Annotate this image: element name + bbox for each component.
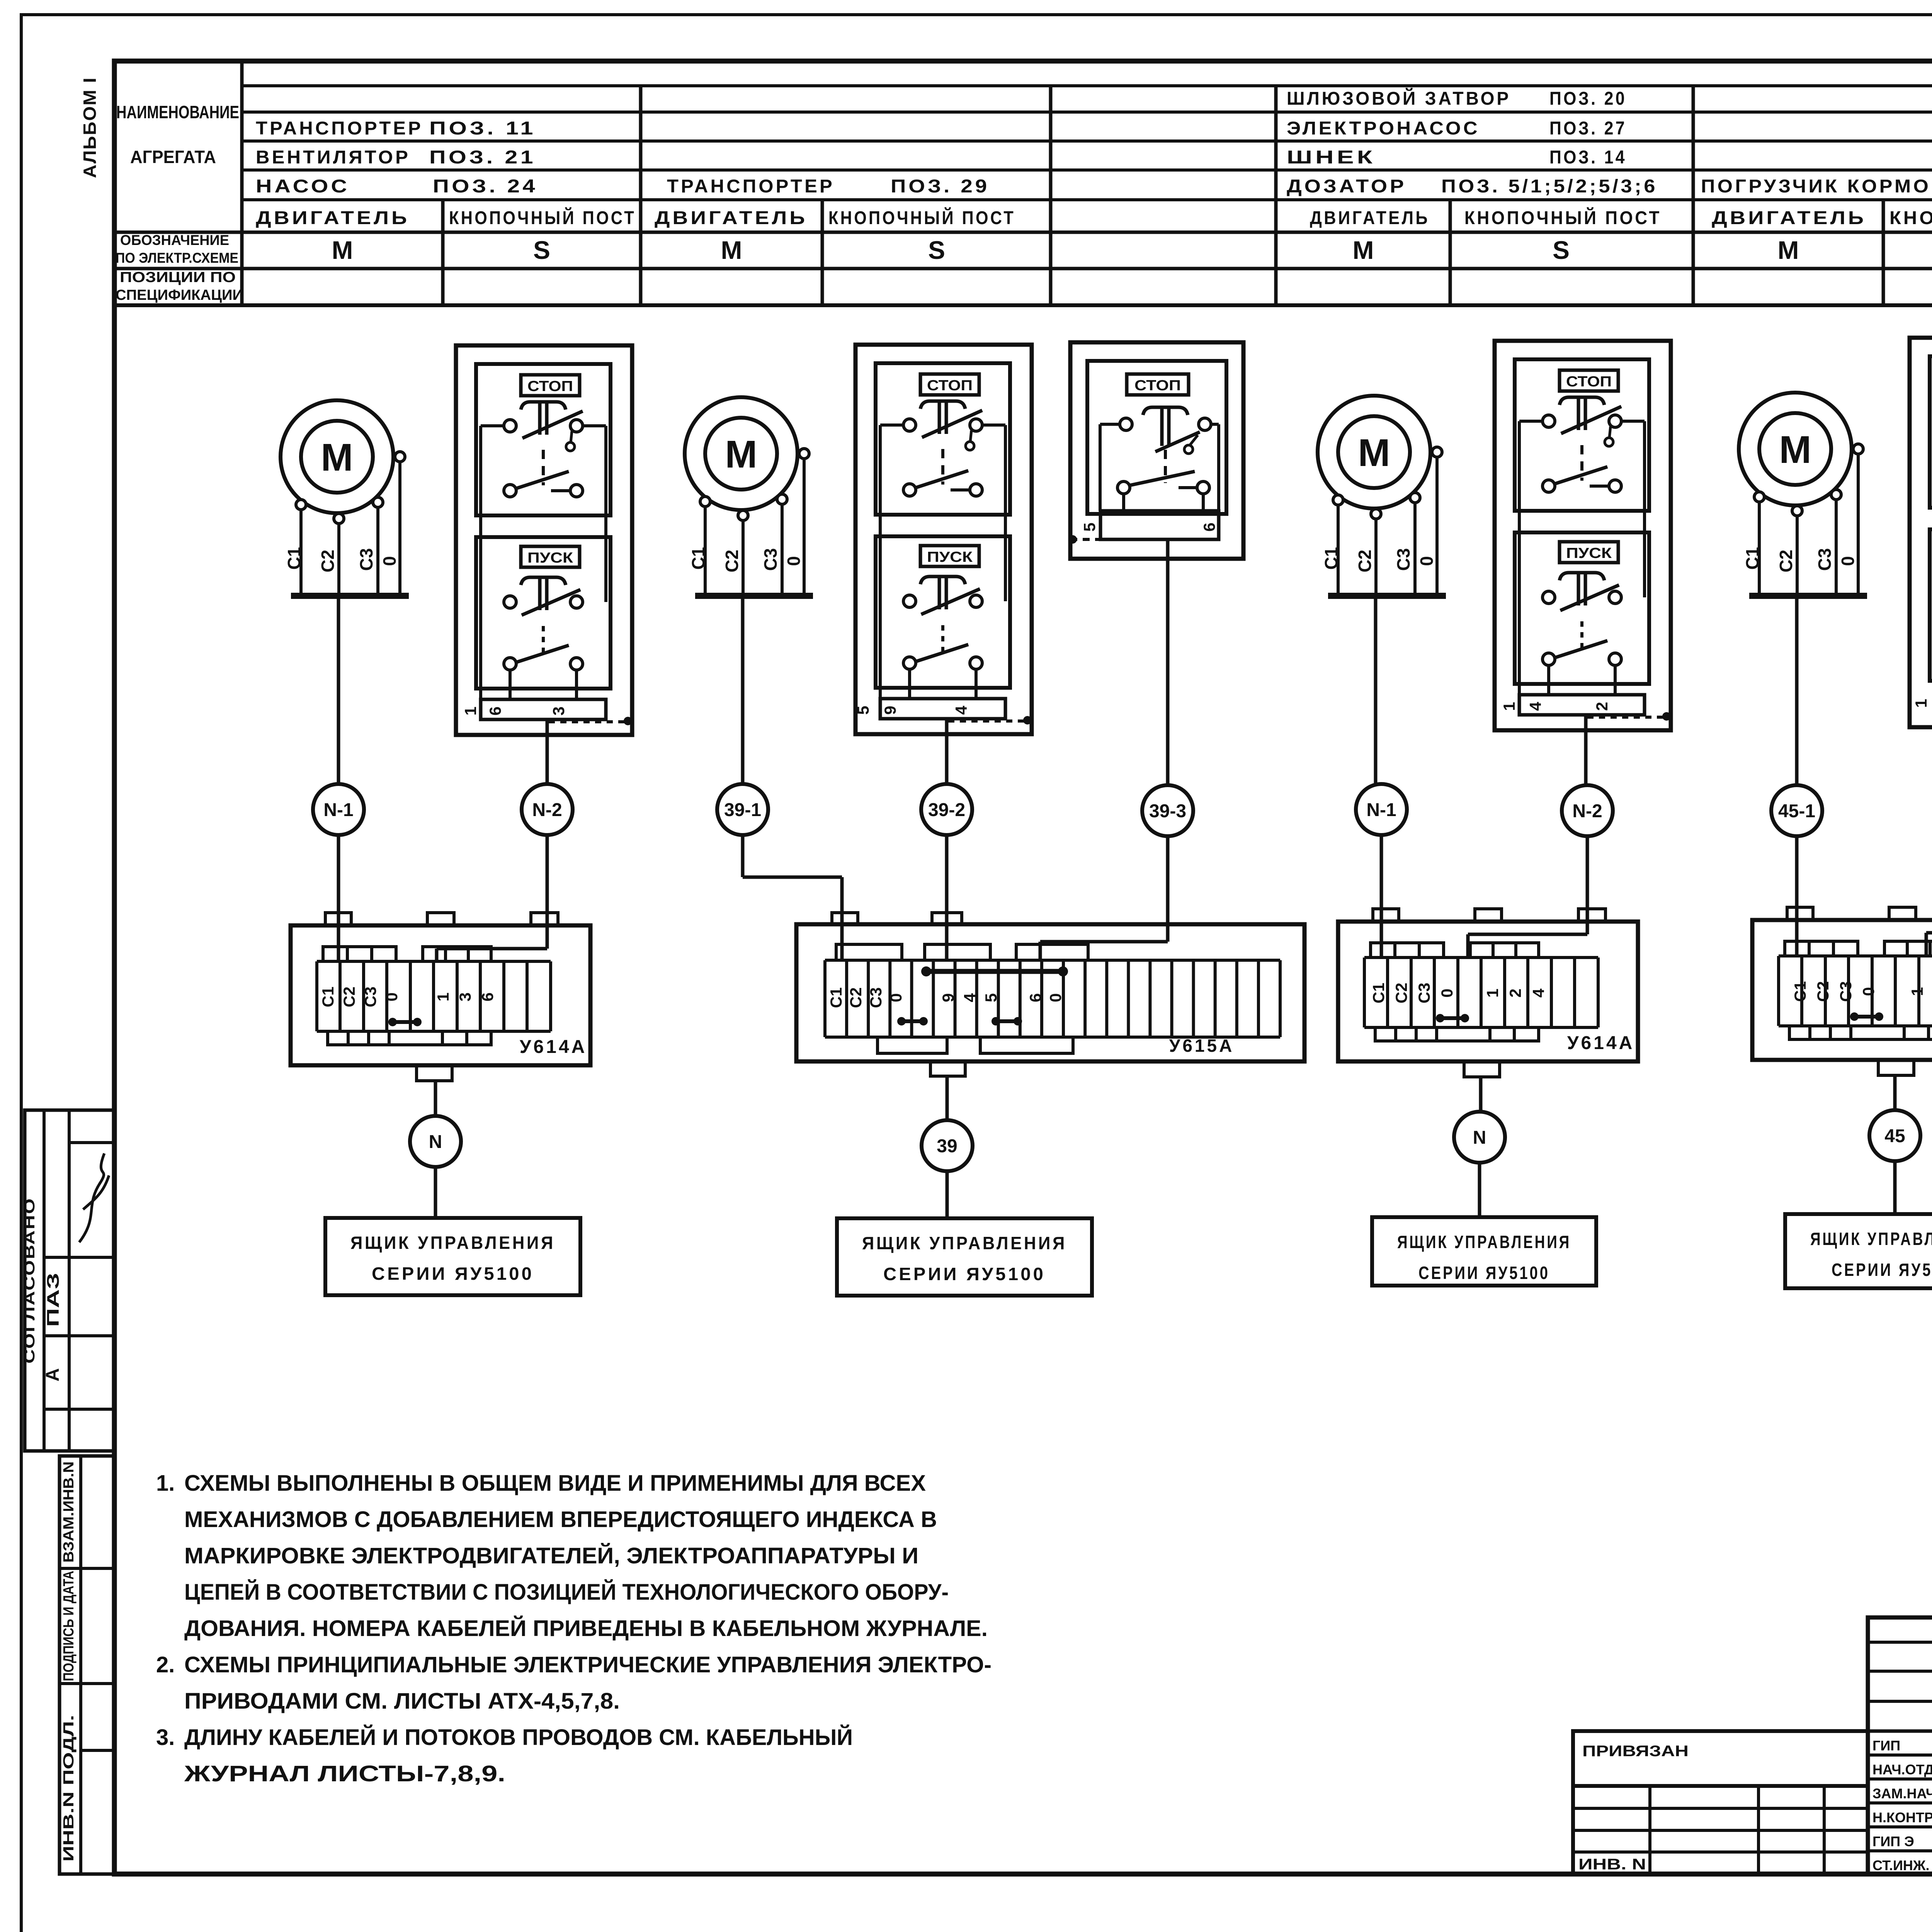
svg-text:1: 1 <box>434 992 452 1001</box>
svg-text:5: 5 <box>1080 522 1099 531</box>
svg-text:1: 1 <box>1908 987 1926 996</box>
svg-text:НАСОС: НАСОС <box>256 176 350 197</box>
svg-text:ДЛИНУ КАБЕЛЕЙ И ПОТОКОВ ПР: ДЛИНУ КАБЕЛЕЙ И ПОТОКОВ ПРОВОДОВ СМ. КАБ… <box>184 1725 853 1750</box>
svg-text:С1: С1 <box>1742 547 1762 570</box>
svg-text:АГРЕГАТА: АГРЕГАТА <box>130 147 216 167</box>
svg-text:0: 0 <box>379 556 400 566</box>
svg-text:N-1: N-1 <box>323 800 353 820</box>
svg-text:С1: С1 <box>319 986 337 1007</box>
svg-text:ЯЩИК УПРАВЛЕНИЯ: ЯЩИК УПРАВЛЕНИЯ <box>1810 1229 1932 1249</box>
svg-text:С2: С2 <box>318 550 338 573</box>
svg-text:СЕРИИ ЯУ5100: СЕРИИ ЯУ5100 <box>372 1264 534 1284</box>
svg-text:М: М <box>725 433 757 476</box>
svg-text:0: 0 <box>383 992 401 1001</box>
svg-text:С2: С2 <box>1355 550 1375 573</box>
svg-text:ДВИГАТЕЛЬ: ДВИГАТЕЛЬ <box>256 208 410 228</box>
svg-text:С3: С3 <box>1815 548 1835 571</box>
svg-text:СЕРИИ ЯУ5100: СЕРИИ ЯУ5100 <box>1832 1260 1932 1280</box>
svg-text:ПО ЭЛЕКТР.СХЕМЕ: ПО ЭЛЕКТР.СХЕМЕ <box>116 250 238 266</box>
svg-text:5: 5 <box>854 706 872 714</box>
svg-text:39: 39 <box>937 1136 957 1156</box>
svg-text:ПОЗ. 24: ПОЗ. 24 <box>433 176 538 197</box>
svg-text:С2: С2 <box>340 986 358 1007</box>
svg-text:АЛЬБОМ I: АЛЬБОМ I <box>80 77 100 178</box>
svg-text:ПРИВЯЗАН: ПРИВЯЗАН <box>1582 1743 1689 1760</box>
svg-text:ЦЕПЕЙ В СООТВЕТСТВИИ С ПОЗИЦ: ЦЕПЕЙ В СООТВЕТСТВИИ С ПОЗИЦИЕЙ ТЕХНОЛОГ… <box>184 1580 949 1605</box>
svg-text:6: 6 <box>486 706 504 715</box>
svg-text:С2: С2 <box>847 987 865 1008</box>
svg-text:М: М <box>321 436 353 479</box>
svg-text:2.: 2. <box>156 1652 175 1677</box>
svg-text:КНОПОЧНЫЙ ПОСТ: КНОПОЧНЫЙ ПОСТ <box>1464 207 1662 228</box>
svg-text:4: 4 <box>1526 702 1544 711</box>
svg-text:N-2: N-2 <box>1572 801 1602 821</box>
svg-text:СЕРИИ ЯУ5100: СЕРИИ ЯУ5100 <box>1418 1263 1550 1283</box>
svg-text:М: М <box>1353 236 1374 264</box>
svg-text:ПОЗ. 5/1;5/2;5/3;6: ПОЗ. 5/1;5/2;5/3;6 <box>1441 176 1658 197</box>
svg-text:2: 2 <box>1506 988 1524 997</box>
svg-text:39-1: 39-1 <box>724 800 761 820</box>
svg-text:ПУСК: ПУСК <box>1566 545 1612 561</box>
svg-text:ПОДПИСЬ И ДАТА: ПОДПИСЬ И ДАТА <box>61 1571 77 1681</box>
svg-text:С1: С1 <box>827 987 845 1008</box>
svg-text:СЕРИИ ЯУ5100: СЕРИИ ЯУ5100 <box>883 1264 1046 1284</box>
svg-text:С2: С2 <box>1392 983 1410 1003</box>
svg-text:ГИП: ГИП <box>1872 1738 1900 1753</box>
svg-text:ПОЗ. 20: ПОЗ. 20 <box>1549 88 1627 109</box>
svg-text:ЯЩИК УПРАВЛЕНИЯ: ЯЩИК УПРАВЛЕНИЯ <box>350 1233 555 1253</box>
svg-text:S: S <box>1553 236 1570 264</box>
svg-text:ОБОЗНАЧЕНИЕ: ОБОЗНАЧЕНИЕ <box>120 232 229 248</box>
svg-text:6: 6 <box>478 992 497 1001</box>
svg-text:ШЛЮЗОВОЙ ЗАТВОР: ШЛЮЗОВОЙ ЗАТВОР <box>1287 88 1511 109</box>
svg-text:С1: С1 <box>688 547 708 570</box>
svg-text:ШНЕК: ШНЕК <box>1287 147 1376 168</box>
svg-text:6: 6 <box>1200 522 1218 531</box>
svg-text:ПОЗ. 29: ПОЗ. 29 <box>891 176 990 197</box>
svg-text:СОГЛАСОВАНО: СОГЛАСОВАНО <box>22 1197 38 1364</box>
svg-text:ИНВ.N ПОДЛ.: ИНВ.N ПОДЛ. <box>61 1715 77 1862</box>
svg-text:3: 3 <box>549 706 568 715</box>
svg-text:С3: С3 <box>356 548 376 571</box>
svg-text:ПОЗ. 21: ПОЗ. 21 <box>429 147 536 168</box>
svg-text:У614А: У614А <box>1567 1033 1635 1053</box>
svg-text:КНОПОЧНЫЙ ПОСТ: КНОПОЧНЫЙ ПОСТ <box>1889 207 1932 228</box>
svg-text:ЯЩИК УПРАВЛЕНИЯ: ЯЩИК УПРАВЛЕНИЯ <box>862 1233 1067 1253</box>
svg-text:S: S <box>533 236 550 264</box>
svg-text:ДВИГАТЕЛЬ: ДВИГАТЕЛЬ <box>1310 208 1430 228</box>
svg-text:ПОЗ. 14: ПОЗ. 14 <box>1549 147 1627 168</box>
svg-text:3.: 3. <box>156 1725 175 1750</box>
svg-text:4: 4 <box>952 706 970 715</box>
svg-text:5: 5 <box>982 993 1000 1002</box>
svg-text:45-1: 45-1 <box>1778 801 1815 821</box>
svg-text:39-2: 39-2 <box>928 800 965 820</box>
svg-text:У615А: У615А <box>1169 1036 1235 1056</box>
svg-text:0: 0 <box>1859 987 1878 996</box>
svg-text:Н.КОНТР.: Н.КОНТР. <box>1872 1810 1932 1825</box>
svg-text:0: 0 <box>1838 556 1858 566</box>
svg-text:М: М <box>1778 236 1799 264</box>
svg-text:ПОЗ. 27: ПОЗ. 27 <box>1549 118 1627 139</box>
svg-text:СПЕЦИФИКАЦИИ: СПЕЦИФИКАЦИИ <box>116 287 243 303</box>
svg-text:С1: С1 <box>1791 981 1809 1002</box>
svg-text:2: 2 <box>1593 702 1611 711</box>
svg-text:С3: С3 <box>1415 983 1433 1003</box>
svg-text:N: N <box>429 1132 442 1152</box>
svg-text:КНОПОЧНЫЙ ПОСТ: КНОПОЧНЫЙ ПОСТ <box>828 207 1015 228</box>
svg-text:СХЕМЫ ВЫПОЛНЕНЫ В ОБЩЕМ ВИ: СХЕМЫ ВЫПОЛНЕНЫ В ОБЩЕМ ВИДЕ И ПРИМЕНИМЫ… <box>184 1471 926 1496</box>
svg-text:45: 45 <box>1884 1126 1905 1146</box>
svg-text:ДОВАНИЯ. НОМЕРА КАБЕЛЕЙ ПРИ: ДОВАНИЯ. НОМЕРА КАБЕЛЕЙ ПРИВЕДЕНЫ В КАБЕ… <box>184 1616 988 1641</box>
svg-text:ПРИВОДАМИ СМ. ЛИСТЫ АТХ-4,5,: ПРИВОДАМИ СМ. ЛИСТЫ АТХ-4,5,7,8. <box>184 1689 620 1714</box>
svg-text:КНОПОЧНЫЙ ПОСТ: КНОПОЧНЫЙ ПОСТ <box>449 207 636 228</box>
svg-text:ЖУРНАЛ ЛИСТЫ-7,8,9.: ЖУРНАЛ ЛИСТЫ-7,8,9. <box>184 1761 505 1786</box>
svg-text:1: 1 <box>461 706 480 715</box>
svg-text:С1: С1 <box>284 547 304 570</box>
svg-text:ВЗАМ.ИНВ.N: ВЗАМ.ИНВ.N <box>61 1461 77 1563</box>
svg-text:0: 0 <box>1046 993 1065 1002</box>
svg-text:МАРКИРОВКЕ ЭЛЕКТРОДВИГАТЕЛЕЙ,: МАРКИРОВКЕ ЭЛЕКТРОДВИГАТЕЛЕЙ, ЭЛЕКТРОАПП… <box>184 1543 918 1568</box>
svg-text:С3: С3 <box>760 548 781 571</box>
svg-text:НАЧ.ОТД.: НАЧ.ОТД. <box>1872 1762 1932 1777</box>
svg-text:ПУСК: ПУСК <box>527 550 573 566</box>
svg-text:N-1: N-1 <box>1366 800 1396 820</box>
svg-text:S: S <box>928 236 945 264</box>
svg-text:3: 3 <box>456 992 474 1001</box>
svg-text:ПОЗ. 11: ПОЗ. 11 <box>429 118 536 139</box>
svg-text:4: 4 <box>961 993 979 1002</box>
svg-text:0: 0 <box>1438 988 1456 997</box>
svg-text:С3: С3 <box>1837 981 1855 1002</box>
svg-text:М: М <box>332 236 353 264</box>
svg-text:С3: С3 <box>1393 548 1413 571</box>
svg-text:ЗАМ.НАЧ.: ЗАМ.НАЧ. <box>1872 1786 1932 1801</box>
svg-text:ТРАНСПОРТЕР: ТРАНСПОРТЕР <box>256 118 423 139</box>
svg-text:СТОП: СТОП <box>1134 378 1181 394</box>
svg-text:С2: С2 <box>1814 981 1832 1002</box>
svg-text:1.: 1. <box>156 1471 175 1496</box>
svg-text:1: 1 <box>1912 699 1930 707</box>
svg-text:СХЕМЫ ПРИНЦИПИАЛЬНЫЕ ЭЛЕКТРИ: СХЕМЫ ПРИНЦИПИАЛЬНЫЕ ЭЛЕКТРИЧЕСКИЕ УПРАВ… <box>184 1652 992 1677</box>
svg-text:ПУСК: ПУСК <box>927 549 973 565</box>
svg-text:ДОЗАТОР: ДОЗАТОР <box>1287 176 1406 197</box>
svg-text:МЕХАНИЗМОВ С ДОБАВЛЕНИЕМ ВПЕР: МЕХАНИЗМОВ С ДОБАВЛЕНИЕМ ВПЕРЕДИСТОЯЩЕГО… <box>184 1507 937 1532</box>
svg-text:НАИМЕНОВАНИЕ: НАИМЕНОВАНИЕ <box>116 102 239 122</box>
svg-text:С3: С3 <box>867 987 885 1008</box>
svg-text:СТОП: СТОП <box>927 378 973 394</box>
svg-text:У614А: У614А <box>520 1037 587 1057</box>
svg-text:ИНВ. N: ИНВ. N <box>1578 1856 1646 1873</box>
svg-text:СТОП: СТОП <box>1566 374 1612 390</box>
svg-text:С1: С1 <box>1369 983 1388 1003</box>
svg-text:СТОП: СТОП <box>527 378 573 395</box>
svg-text:0: 0 <box>784 556 804 566</box>
svg-text:ПОГРУЗЧИК КОРМОВ: ПОГРУЗЧИК КОРМОВ <box>1701 176 1932 197</box>
svg-text:ДВИГАТЕЛЬ: ДВИГАТЕЛЬ <box>1712 208 1866 228</box>
svg-text:ЭЛЕКТРОНАСОС: ЭЛЕКТРОНАСОС <box>1287 118 1480 139</box>
svg-text:С3: С3 <box>361 986 379 1007</box>
svg-text:0: 0 <box>1417 556 1437 566</box>
svg-text:А: А <box>43 1368 63 1382</box>
svg-text:1: 1 <box>1500 702 1518 711</box>
svg-text:М: М <box>1779 428 1811 471</box>
svg-text:М: М <box>721 236 742 264</box>
svg-text:СТ.ИНЖ.: СТ.ИНЖ. <box>1872 1857 1929 1873</box>
svg-text:N-2: N-2 <box>532 800 562 820</box>
svg-text:9: 9 <box>881 706 899 714</box>
svg-text:ДВИГАТЕЛЬ: ДВИГАТЕЛЬ <box>655 208 808 228</box>
svg-text:М: М <box>1358 431 1390 474</box>
svg-text:0: 0 <box>887 993 905 1002</box>
svg-text:1: 1 <box>1483 988 1502 997</box>
svg-text:6: 6 <box>1026 993 1044 1002</box>
svg-text:ПАЗ: ПАЗ <box>44 1273 63 1327</box>
svg-text:ЯЩИК УПРАВЛЕНИЯ: ЯЩИК УПРАВЛЕНИЯ <box>1397 1232 1571 1252</box>
svg-text:9: 9 <box>939 993 957 1002</box>
svg-text:39-3: 39-3 <box>1149 801 1186 821</box>
svg-text:ТРАНСПОРТЕР: ТРАНСПОРТЕР <box>667 176 835 197</box>
svg-text:ПОЗИЦИИ ПО: ПОЗИЦИИ ПО <box>120 269 236 286</box>
svg-text:ВЕНТИЛЯТОР: ВЕНТИЛЯТОР <box>256 147 410 168</box>
svg-text:С1: С1 <box>1321 547 1341 570</box>
svg-text:4: 4 <box>1529 988 1548 998</box>
svg-text:С2: С2 <box>1776 550 1796 573</box>
svg-text:С2: С2 <box>722 550 742 573</box>
svg-text:ГИП Э: ГИП Э <box>1872 1833 1914 1849</box>
svg-text:N: N <box>1473 1128 1486 1148</box>
